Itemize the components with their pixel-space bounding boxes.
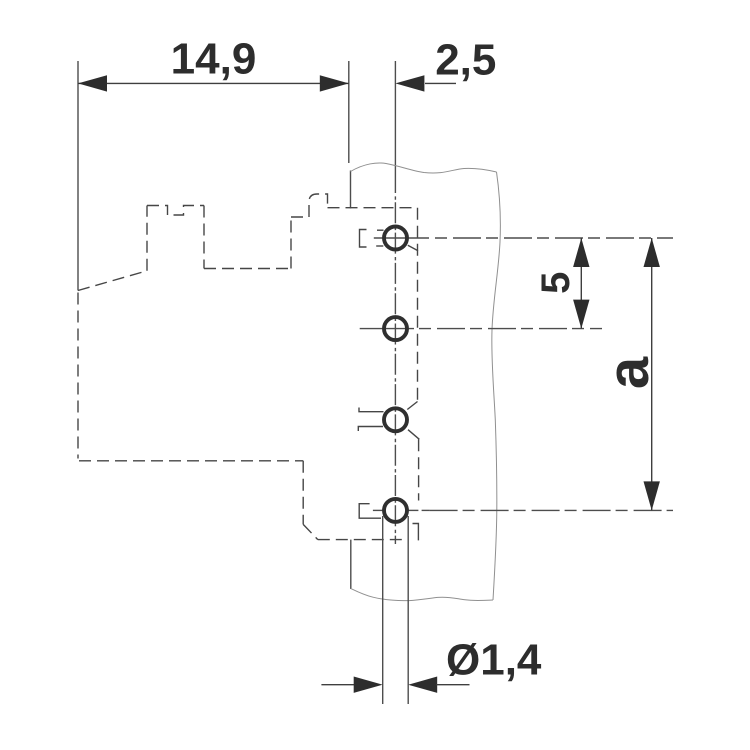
pin lower line at hole H1 [376, 245, 383, 247]
hole H4 [384, 499, 407, 522]
svg-text:2,5: 2,5 [435, 36, 496, 85]
extension line hole tangent left (x=382.7) [382, 516, 384, 704]
dim arrow 2,5 (left tip at hole center line) [395, 75, 456, 91]
latch diagonal below hole H1 [408, 245, 418, 251]
extension line hole tangent right (x=408.2) [407, 516, 409, 704]
corner bracket right of hole H4 [413, 524, 419, 541]
slot lower line at hole H3 [358, 427, 383, 432]
PCB break line right (wavy) [492, 172, 501, 600]
outline notch out of hole3 bottom [408, 430, 419, 440]
dim 5 vertical line with arrows [573, 238, 589, 329]
PCB break line bottom (wavy) [351, 589, 493, 601]
outline bump1 right [203, 206, 205, 269]
center line vertical through holes (x=395.4) [394, 61, 396, 172]
outline shelf [204, 268, 291, 270]
outline right edge upper [417, 208, 419, 401]
outline bump1 left [146, 206, 148, 271]
extension line PCB face (x=348.8) [348, 61, 350, 163]
svg-text:14,9: 14,9 [171, 35, 257, 84]
pin slot bracket at hole H1 [360, 230, 367, 248]
dim line Ø1,4 [321, 677, 469, 693]
outline sloped top-left [78, 271, 147, 291]
outline lower step vertical [302, 461, 304, 525]
svg-text:Ø1,4: Ø1,4 [446, 636, 542, 685]
hole H2 [384, 317, 407, 340]
extension line left (x=78) [77, 61, 79, 291]
outline step2 top [291, 194, 328, 217]
outline bottom edge near PCB [318, 539, 403, 541]
svg-text:a: a [596, 356, 661, 389]
outline notch into hole3 top [407, 402, 417, 410]
outline left vertical lower [77, 293, 79, 459]
PCB left edge top (solid) [350, 171, 352, 209]
outline step2 left [290, 217, 292, 269]
outline lower diagonal [303, 524, 318, 539]
pin upper line at hole H1 [377, 229, 384, 231]
connector outline (dashed) [78, 194, 419, 540]
dim line 14,9 [78, 75, 349, 91]
hole H3 [384, 408, 407, 431]
outline right edge lower [418, 439, 420, 500]
center line hole H2 horizontal [360, 328, 602, 330]
slot upper line at hole H3 [359, 408, 384, 412]
PCB break line top (wavy) [351, 163, 497, 173]
center line hole H1 horizontal [374, 237, 673, 239]
center line hole H4 horizontal [373, 509, 673, 511]
PCB left edge bottom (solid) [350, 540, 352, 589]
pin slot bracket at hole H4 [359, 504, 381, 519]
hole H1 [384, 227, 407, 250]
dim a vertical line with arrows [644, 238, 660, 510]
outline top edge to right [328, 207, 418, 209]
svg-text:5: 5 [534, 272, 578, 294]
outline bump1 top with notch [147, 206, 204, 216]
outline bottom long edge [79, 460, 303, 462]
